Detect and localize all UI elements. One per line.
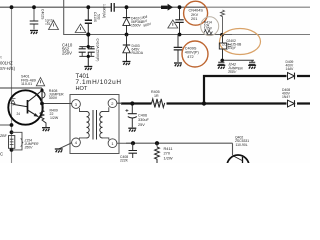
capacitor CN404S — [179, 7, 181, 35]
svg-text:350V: 350V — [228, 70, 237, 74]
grey ellipse R414 — [201, 17, 219, 36]
diode D408 on y103.5 — [288, 100, 295, 107]
wire top bus y7 — [0, 6, 205, 8]
svg-text:350V: 350V — [25, 146, 34, 150]
cap-ground right — [249, 60, 255, 64]
diode D409 on y76 — [288, 73, 295, 80]
wire second bus y34.5 with drop from top edge at x63.7 — [64, 0, 232, 35]
winding stubs — [80, 107, 109, 140]
arrow on top bus — [161, 6, 168, 9]
capacitor C402S stub — [33, 7, 35, 30]
safety triangle — [75, 24, 86, 33]
svg-text:25V: 25V — [138, 123, 145, 127]
svg-text:222K: 222K — [120, 159, 129, 163]
tiny internal diode — [11, 99, 16, 104]
winding right — [100, 112, 103, 139]
svg-text:250V: 250V — [62, 51, 72, 56]
orange circle C409S — [182, 41, 208, 67]
svg-text:7.1mH/102uH: 7.1mH/102uH — [76, 79, 122, 86]
wire pin2 to bus — [117, 102, 122, 104]
orange circle CN404S — [184, 1, 208, 25]
capacitor C409S — [177, 35, 179, 63]
svg-text:C410A 250V(P): C410A 250V(P) — [96, 39, 100, 62]
svg-text:ZBF: ZBF — [0, 134, 8, 138]
svg-text:1R: 1R — [154, 94, 159, 98]
capacitor C410S series on top bus — [111, 3, 114, 12]
svg-text:24: 24 — [17, 112, 21, 116]
label C404 slanted — [139, 14, 152, 28]
svg-text:1.6KV(M): 1.6KV(M) — [102, 4, 106, 18]
svg-text:110-01: 110-01 — [21, 82, 32, 86]
jumper J154 — [10, 130, 14, 134]
node top-left — [10, 5, 14, 9]
transformer T401 — [70, 95, 119, 154]
resistor R409 — [40, 107, 46, 128]
wire pin3 to x42 — [42, 103, 72, 105]
wire left vertical x11.5 — [11, 7, 13, 163]
wire bottom net y143 — [126, 143, 233, 155]
capacitor C408 — [132, 143, 134, 158]
svg-text:C406: C406 — [138, 114, 147, 118]
svg-text:=01: =01 — [45, 22, 51, 26]
svg-text:SY-H/S): SY-H/S) — [0, 66, 16, 71]
resistor R414 — [204, 30, 212, 34]
safety triangle near CN404S — [168, 20, 178, 28]
svg-text:C: C — [0, 152, 3, 157]
svg-text:C402S: C402S — [41, 9, 45, 20]
svg-text:001HZ: 001HZ — [0, 60, 13, 65]
thick bottom bus y103.5 — [121, 102, 310, 104]
resistor R405 inline — [152, 99, 165, 108]
svg-text:HOT: HOT — [76, 86, 88, 92]
svg-text:RU2DA: RU2DA — [132, 51, 144, 55]
jumper R408 loop — [42, 92, 45, 99]
capacitor C406 — [131, 104, 133, 128]
svg-text:1N4?: 1N4? — [282, 95, 290, 99]
cap-ground left — [218, 60, 224, 64]
svg-text:14AV: 14AV — [286, 67, 295, 71]
faint ellipse D2402 — [220, 29, 261, 55]
svg-text:1500V: 1500V — [131, 24, 142, 28]
svg-text:300V: 300V — [49, 96, 58, 100]
diode D403 — [126, 35, 128, 62]
svg-text:330uF: 330uF — [138, 118, 149, 122]
svg-text:472: 472 — [187, 55, 193, 59]
base drive wire y88 — [0, 87, 42, 89]
svg-text:201: 201 — [191, 17, 197, 21]
resistor R411 — [156, 143, 158, 146]
winding left — [87, 112, 90, 139]
wire left return nodes — [0, 124, 12, 126]
component box D2402 — [222, 35, 224, 61]
transistor Q402 — [227, 155, 249, 177]
diode D402 — [126, 7, 128, 35]
jumper J242 wire — [220, 59, 254, 61]
svg-text:503: 503 — [97, 14, 101, 20]
svg-text:1/2W: 1/2W — [164, 156, 173, 161]
core — [93, 110, 97, 140]
safety triangle — [49, 21, 59, 30]
ground — [30, 31, 38, 35]
wire pin1 to bottom net — [117, 142, 133, 144]
vertical x42 — [41, 88, 43, 107]
ground — [84, 67, 92, 71]
transistor Q401 — [8, 90, 42, 124]
capacitor C410 chain — [87, 7, 89, 66]
svg-text:1/2W: 1/2W — [50, 116, 59, 120]
safety triangle — [36, 78, 44, 86]
wire pin4 to ground — [59, 143, 72, 149]
thick L bus — [204, 76, 310, 104]
svg-text:110-90L: 110-90L — [236, 143, 248, 147]
